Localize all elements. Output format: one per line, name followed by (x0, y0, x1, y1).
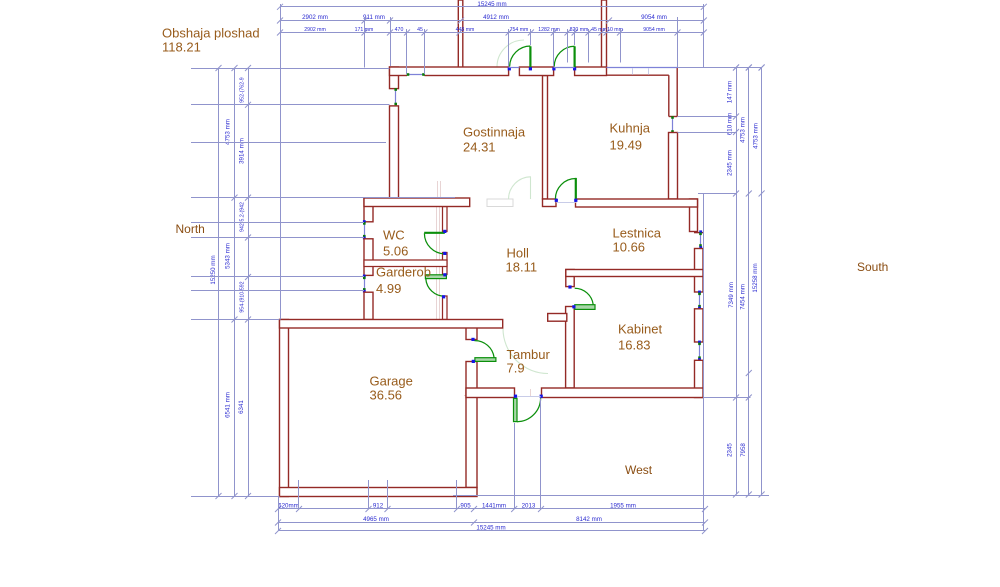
svg-text:3914 mm: 3914 mm (239, 138, 246, 164)
dimension line bottom overall 15245 mm (278, 530, 705, 532)
svg-text:15258 mm: 15258 mm (752, 263, 759, 292)
svg-text:Obshaja ploshad: Obshaja ploshad (162, 26, 260, 41)
svg-text:4912 mm: 4912 mm (483, 14, 509, 21)
svg-text:4965 mm: 4965 mm (363, 516, 389, 523)
wall garage right / Tambur left upper (466, 320, 477, 340)
svg-text:820 mm: 820 mm (570, 27, 589, 33)
wall Tambur stub (548, 314, 567, 322)
dimension line left outer 15250 mm (218, 68, 220, 497)
svg-text:448 mm: 448 mm (456, 27, 475, 33)
svg-text:1955 mm: 1955 mm (610, 502, 636, 509)
window W9 Kabinet right (699, 343, 701, 359)
door D7 Kabinet arc (575, 288, 594, 304)
faint door arc Holl-Tambur (503, 329, 548, 374)
dimension line bottom row1 (278, 508, 705, 510)
faint porch lines (464, 395, 475, 397)
svg-text:10.66: 10.66 (613, 240, 646, 255)
tick lines right side (678, 116, 737, 118)
window W4 in top wall (407, 69, 425, 77)
svg-text:7.9: 7.9 (507, 361, 525, 376)
threshold Kuhnja door (556, 202, 576, 204)
wall garage bottom band (280, 488, 478, 497)
dimension line bottom row2 (278, 522, 705, 524)
door D5 Garderob leaf (425, 275, 446, 279)
svg-text:9054 mm: 9054 mm (643, 27, 665, 33)
extension lines bottom (278, 497, 280, 531)
door D2 terrace right leaf (573, 46, 575, 68)
wall garage top band (280, 320, 503, 329)
svg-text:905: 905 (460, 502, 471, 509)
svg-text:15250 mm: 15250 mm (210, 255, 217, 284)
wall WC top band (364, 198, 470, 207)
wall Gostinnaja-Kuhnja divider (543, 76, 548, 200)
svg-text:24.31: 24.31 (463, 140, 496, 155)
svg-text:7454 mm: 7454 mm (740, 284, 747, 310)
svg-text:Holl: Holl (507, 246, 530, 261)
door D6 garage-Tambur leaf (475, 358, 496, 362)
door D6 garage-Tambur arc (474, 341, 494, 358)
svg-text:36.56: 36.56 (370, 388, 403, 403)
wall Lestnica top band (576, 199, 698, 207)
wall Kabinet right middle (695, 309, 704, 342)
dimension line right outer 15258 mm (761, 68, 763, 495)
door D5 Garderob arc (426, 279, 445, 296)
svg-text:6541 mm: 6541 mm (225, 392, 232, 418)
svg-text:118.21: 118.21 (162, 40, 201, 55)
wall Lestnica top stub (543, 199, 557, 207)
svg-text:912: 912 (373, 502, 384, 509)
wall WC-Garderob divider (364, 260, 447, 267)
tick lines left side (191, 68, 390, 70)
wall corridor between doors (443, 253, 448, 275)
window W1 Gostinnaja left (395, 90, 397, 105)
faint door arc Gostinnaja-Holl (509, 177, 532, 200)
door D3 Kuhnja arc (555, 179, 575, 200)
svg-text:Gostinnaja: Gostinnaja (463, 125, 526, 140)
wall terrace left (458, 0, 463, 68)
wall Gostinnaja left lower (390, 106, 399, 199)
svg-text:620mm: 620mm (278, 502, 299, 509)
window W3 Garderob left (364, 277, 366, 291)
wall bottom band left segment (466, 388, 515, 398)
wall Garderob left lower (364, 292, 373, 319)
wall Kabinet right upper (695, 249, 704, 293)
svg-text:2902 mm: 2902 mm (302, 14, 328, 21)
wall Kabinet right lower (695, 360, 704, 397)
svg-text:Garage: Garage (370, 374, 413, 389)
svg-text:9054 mm: 9054 mm (641, 14, 667, 21)
door D7 Kabinet leaf (575, 305, 595, 310)
svg-text:2345: 2345 (727, 443, 734, 457)
svg-text:18.11: 18.11 (506, 260, 538, 275)
faint cased opening between Gostinnaja and Holl (487, 199, 513, 207)
wall Kabinet left lower (566, 307, 575, 389)
door D1 terrace left arc (510, 46, 531, 67)
wall WC-Garderob left middle (364, 239, 373, 276)
window W6 Kuhnja right (672, 118, 674, 132)
svg-text:South: South (857, 260, 888, 274)
threshold entry door (517, 396, 541, 398)
wall Kuhnja right lower (669, 133, 678, 200)
svg-text:1282 mm: 1282 mm (538, 27, 560, 33)
svg-text:4.99: 4.99 (376, 281, 401, 296)
wall Kuhnja top inner line (607, 74, 669, 76)
wall corridor (WC right) upper (443, 207, 448, 232)
svg-text:6341: 6341 (238, 400, 245, 414)
window W2 WC left (364, 223, 366, 237)
svg-text:754 mm: 754 mm (510, 27, 529, 33)
wall top band right segment (575, 67, 607, 76)
svg-text:Lestnica: Lestnica (613, 226, 662, 241)
svg-text:16.83: 16.83 (618, 338, 651, 353)
window W5 Kuhnja glazed top (607, 67, 678, 69)
svg-text:45 mm: 45 mm (591, 27, 607, 33)
wall Kuhnja right upper (676, 68, 678, 117)
svg-text:1441mm: 1441mm (482, 502, 506, 509)
svg-text:2345 mm: 2345 mm (727, 150, 734, 176)
wall terrace right (602, 0, 607, 68)
svg-text:15245 mm: 15245 mm (477, 1, 506, 8)
dimension line right inner (736, 68, 738, 495)
faint ghost arc terrace door (497, 40, 524, 67)
svg-text:15245 mm: 15245 mm (476, 524, 505, 531)
window W8 Kabinet right (699, 293, 701, 307)
threshold top door 1 (509, 67, 520, 69)
dimension line top row3 (280, 32, 704, 34)
svg-text:Garderob: Garderob (376, 265, 431, 280)
wall bottom band right segment (542, 388, 704, 398)
dimension line top overall 15245 mm (280, 6, 704, 8)
wall Kabinet left upper (566, 270, 574, 287)
svg-text:7958: 7958 (740, 443, 747, 457)
svg-text:470: 470 (395, 27, 404, 33)
faint duct lines in Gostinnaja (437, 181, 439, 199)
faint duct lines in Holl (436, 207, 438, 319)
svg-text:5343 mm: 5343 mm (225, 243, 232, 269)
wall corridor lower (443, 296, 448, 320)
door D4 WC arc (424, 233, 445, 254)
wall Lestnica bottom band (566, 270, 703, 277)
dimension line left middle (234, 68, 236, 497)
wall garage right / Tambur left lower (466, 362, 477, 488)
wall WC left upper (364, 198, 373, 222)
svg-text:North: North (176, 222, 205, 236)
wall Lestnica right (690, 199, 698, 232)
svg-text:4753 mm: 4753 mm (739, 117, 746, 143)
svg-text:4753 mm: 4753 mm (753, 123, 760, 149)
threshold top door 2 (554, 67, 575, 69)
svg-text:2013: 2013 (522, 502, 536, 509)
svg-text:4753 mm: 4753 mm (225, 119, 232, 145)
dimension line right middle (748, 68, 750, 495)
svg-text:954-(910-592: 954-(910-592 (240, 281, 246, 312)
svg-text:45: 45 (417, 27, 423, 33)
door D3 Kuhnja leaf (575, 178, 577, 199)
wall top band left segment (390, 67, 509, 76)
svg-text:Kabinet: Kabinet (618, 322, 662, 337)
svg-text:952-(762-9: 952-(762-9 (240, 77, 246, 102)
svg-text:942-5.2-(942: 942-5.2-(942 (240, 202, 246, 232)
dimension line top row2 (280, 20, 704, 22)
wall garage left (280, 320, 289, 497)
tick line right top (678, 67, 762, 69)
wall top band middle segment (519, 67, 553, 76)
door D8 entry leaf (514, 398, 518, 421)
door D2 terrace right arc (554, 46, 574, 66)
extension lines top (280, 4, 282, 320)
wall Gostinnaja left upper (390, 67, 399, 89)
door D8 entry arc (517, 398, 541, 422)
door D1 terrace left leaf (529, 46, 531, 68)
svg-text:West: West (625, 463, 653, 477)
svg-text:WC: WC (383, 228, 405, 243)
window W7 Lestnica right (700, 234, 702, 247)
svg-text:Kuhnja: Kuhnja (610, 121, 651, 136)
svg-text:911 mm: 911 mm (363, 14, 385, 21)
svg-text:2902 mm: 2902 mm (304, 27, 326, 33)
door D4 WC leaf (424, 232, 445, 234)
svg-text:8142 mm: 8142 mm (576, 516, 602, 523)
svg-text:147 mm: 147 mm (727, 81, 734, 103)
dimension line left inner (248, 68, 250, 497)
svg-text:19.49: 19.49 (610, 138, 643, 153)
svg-text:5.06: 5.06 (383, 244, 408, 259)
svg-text:7349 mm: 7349 mm (728, 282, 735, 308)
